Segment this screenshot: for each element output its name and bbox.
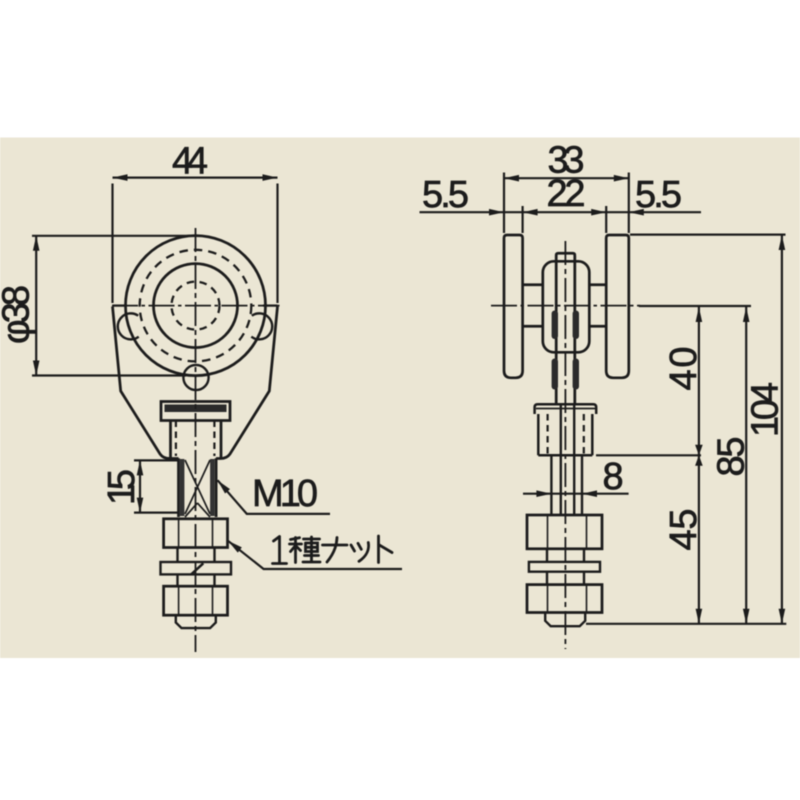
washer right: [529, 562, 600, 572]
svg-text:85: 85: [711, 437, 753, 477]
arrows dim 40: [696, 307, 703, 322]
arrow nut leader: [226, 538, 242, 552]
rod background: [180, 458, 215, 517]
bolt core lines: [561, 404, 574, 515]
svg-text:45: 45: [663, 509, 705, 551]
bore dashed circle: [172, 282, 220, 330]
dim 33 line: [504, 177, 629, 179]
nut 1 right: [527, 515, 602, 549]
glyph small tsu (katakana): [351, 543, 369, 562]
right ear arc: [251, 313, 272, 339]
ext centerline right: [639, 305, 751, 307]
axle top line: [523, 283, 607, 286]
dim 33 ext right: [628, 173, 630, 234]
wheel tread dashed circle: [140, 250, 252, 362]
rod thread dark band right: [210, 459, 215, 516]
cap right view: [535, 404, 597, 414]
nut 2 right facets: [548, 585, 587, 612]
svg-text:5.5: 5.5: [635, 174, 682, 216]
rod thread dark band left: [180, 459, 185, 516]
shaft segment: [178, 548, 215, 563]
vertical centerline right view: [564, 241, 566, 649]
hub circle: [154, 264, 238, 348]
svg-text:104: 104: [745, 382, 787, 437]
washer: [161, 562, 232, 574]
boss right view: [538, 414, 592, 455]
left flange: [504, 235, 523, 378]
boss right edge: [220, 421, 223, 459]
right flange: [606, 235, 629, 378]
vertical centerline left view: [195, 228, 197, 652]
arrows dim 15: [137, 460, 144, 475]
dim 22 ext left: [521, 206, 523, 233]
arrows dim 45: [695, 455, 703, 466]
hub: [543, 261, 590, 352]
svg-text:15: 15: [101, 469, 143, 505]
dim 85 line: [745, 307, 747, 624]
dim 44 line: [113, 177, 278, 179]
arrows dim 44: [113, 174, 128, 181]
plate edge bar 4: [573, 359, 579, 390]
arrows dim 104: [779, 235, 786, 250]
arrows dim 85: [743, 307, 750, 322]
nut 2 facets: [179, 586, 213, 614]
horizontal centerline right: [491, 305, 640, 307]
bottom small circle: [183, 365, 208, 390]
rod X pattern: [185, 460, 210, 517]
label 1-shu nut (custom CJK glyphs): [273, 536, 393, 564]
nut label leader: [228, 541, 402, 569]
glyph na (katakana): [323, 538, 348, 563]
beige drawing background band: [0, 138, 800, 659]
cap plate: [161, 402, 230, 421]
dim 44 ext left: [111, 184, 113, 304]
dim 104 line: [781, 235, 783, 624]
svg-text:M10: M10: [252, 473, 318, 515]
rod outer left: [177, 458, 180, 517]
dim 22+5.5 line: [420, 211, 702, 213]
dim 8 line: [523, 493, 629, 495]
dim 33 ext left: [503, 173, 505, 234]
plate edge bar 1: [552, 311, 558, 340]
glyph to (katakana): [379, 536, 393, 563]
bracket right side: [216, 307, 278, 459]
dim phi38 ext top: [32, 235, 190, 237]
bracket top edge left: [113, 304, 128, 306]
arrows dim 8: [536, 490, 551, 497]
shaft 8mm segments: [547, 455, 584, 584]
svg-text:40: 40: [663, 347, 705, 391]
dim 22 ext right: [605, 206, 607, 233]
bolt end right: [545, 614, 585, 627]
plate edge bar 2: [573, 311, 579, 340]
svg-text:8: 8: [603, 456, 624, 498]
dim 40-45 line: [698, 307, 700, 624]
shaft segment 2: [178, 574, 215, 586]
arrows dim phi38: [33, 236, 40, 251]
svg-text:44: 44: [172, 141, 208, 183]
arrow dim 5.5 right: [629, 209, 644, 216]
axle bottom line: [523, 325, 607, 328]
M10 leader: [218, 480, 331, 514]
spring washer split diagonal: [191, 563, 203, 574]
ext wheel top right: [630, 234, 786, 236]
nut 2 right: [527, 585, 602, 613]
glyph tane (kanji): [290, 537, 321, 563]
svg-text:22: 22: [547, 173, 586, 215]
svg-text:φ38: φ38: [0, 285, 38, 344]
boss hidden thread left: [175, 421, 177, 457]
dim 15 ext top: [134, 459, 178, 461]
arrow dim 5.5 left: [489, 209, 504, 216]
cap plate dark band: [165, 405, 227, 413]
dim 15 ext bottom: [134, 511, 178, 513]
dim 15 line: [139, 460, 141, 512]
nut 1: [164, 519, 228, 548]
boss hidden lines right: [548, 414, 584, 455]
rod outer right: [215, 458, 218, 517]
strap: [556, 253, 575, 404]
svg-text:5.5: 5.5: [422, 174, 469, 216]
arrows dim 33: [504, 175, 519, 182]
bracket top edge right: [263, 304, 278, 306]
dim phi38 line: [35, 236, 37, 376]
bolt end: [176, 615, 216, 628]
left ear arc: [118, 313, 139, 339]
arrows dim 22: [523, 209, 538, 216]
boss left edge: [169, 421, 172, 459]
ext boss bottom right: [596, 454, 701, 456]
boss hidden thread right: [213, 421, 215, 457]
horizontal centerline: [112, 305, 280, 307]
arrowheads: [33, 174, 785, 624]
plate edge bar 3: [552, 359, 558, 390]
cap inner line: [536, 408, 595, 410]
bracket left side: [113, 307, 179, 459]
glyph 1: [273, 537, 287, 564]
nut 1 right facets: [548, 515, 587, 548]
arrow M10 leader: [215, 478, 230, 494]
dim phi38 ext bottom: [32, 374, 186, 376]
nut 2: [164, 586, 228, 615]
nut 1 facets: [179, 520, 213, 547]
wheel outer circle: [126, 236, 266, 376]
ext bolt bottom right: [586, 623, 786, 625]
dim 44 ext right: [276, 184, 278, 304]
